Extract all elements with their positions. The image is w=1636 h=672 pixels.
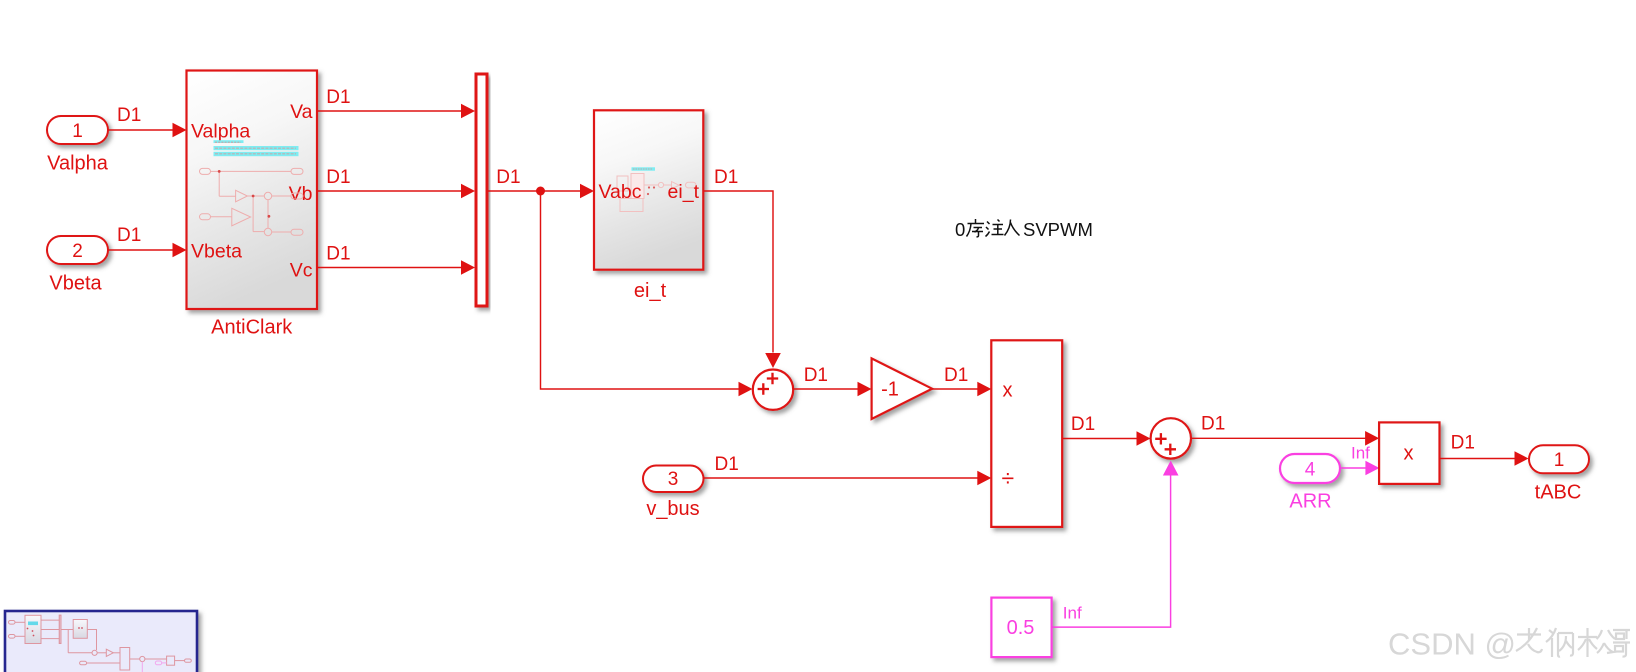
svg-text:ei_t: ei_t	[668, 181, 700, 203]
svg-text:Valpha: Valpha	[47, 153, 109, 175]
svg-text:ARR: ARR	[1289, 491, 1331, 513]
mini ei_t	[73, 620, 87, 639]
inport 4 ARR	[1280, 454, 1340, 513]
svg-text:3: 3	[668, 469, 679, 490]
wire v_bus to divide	[704, 454, 992, 485]
constant 0.5	[991, 598, 1051, 658]
svg-text:4: 4	[1305, 460, 1316, 481]
ei_t preview	[632, 167, 656, 170]
inport 2 Vbeta	[47, 236, 108, 295]
wire divide to sum2	[1062, 414, 1150, 446]
wire 0.5 to sum2 (magenta)	[1052, 461, 1179, 628]
wire Vb to mux	[317, 167, 475, 198]
mini mux	[59, 615, 61, 643]
svg-text:1: 1	[72, 121, 83, 142]
svg-text:D1: D1	[117, 105, 141, 126]
outport 1 tABC	[1529, 445, 1589, 503]
svg-text:Vbeta: Vbeta	[49, 273, 102, 295]
svg-text:Inf: Inf	[1063, 604, 1082, 623]
svg-text:Vc: Vc	[290, 260, 313, 282]
svg-text:D1: D1	[496, 167, 520, 188]
svg-text:D1: D1	[117, 225, 141, 246]
inport 1 Valpha	[47, 116, 109, 175]
mux	[476, 74, 487, 306]
svg-text:Vabc: Vabc	[599, 181, 642, 203]
svg-text:Valpha: Valpha	[191, 121, 250, 143]
wire sum2 to product	[1191, 414, 1379, 446]
ei_t labels	[599, 181, 700, 302]
svg-text:v_bus: v_bus	[646, 498, 699, 520]
svg-text:ei_t: ei_t	[634, 280, 667, 302]
wire inport1 to AntiClark	[108, 105, 187, 137]
svg-text:D1: D1	[944, 365, 968, 386]
svg-text:AntiClark: AntiClark	[211, 317, 293, 339]
minimap contents	[9, 615, 192, 670]
svg-text:D1: D1	[326, 244, 350, 265]
mini v_bus	[80, 661, 87, 665]
mini sum1	[92, 650, 97, 655]
svg-text:D1: D1	[715, 454, 739, 475]
svg-text:0: 0	[955, 219, 965, 240]
mini AntiClark	[25, 615, 41, 643]
svg-text:x: x	[1003, 380, 1013, 402]
wire Va to mux	[317, 87, 475, 118]
wire product to outport	[1440, 433, 1529, 466]
subsystem AntiClark	[187, 71, 318, 339]
minimap navigation panel	[5, 611, 197, 672]
svg-text:D1: D1	[714, 167, 738, 188]
svg-text:D1: D1	[1071, 414, 1095, 435]
preview junction dots	[218, 170, 270, 218]
sum block 2	[1151, 418, 1191, 458]
mini inport1	[9, 621, 16, 625]
svg-text:CSDN @: CSDN @	[1388, 627, 1516, 662]
svg-text:-1: -1	[881, 379, 899, 401]
wire ei_t to sum1	[703, 167, 781, 368]
AntiClark preview code lines	[214, 140, 299, 156]
mini outport	[185, 659, 192, 662]
svg-text:D1: D1	[1201, 414, 1225, 435]
svg-text:D1: D1	[326, 167, 350, 188]
svg-text:0.5: 0.5	[1007, 617, 1035, 639]
CJK ru	[1005, 220, 1020, 236]
watermark CSDN	[1388, 627, 1630, 662]
mini divide	[120, 648, 130, 671]
wire ARR to product (magenta)	[1340, 444, 1379, 476]
svg-text:x: x	[1404, 443, 1414, 465]
minimap magenta bits	[142, 661, 166, 672]
minimap accents	[28, 622, 38, 626]
mini gain	[106, 649, 113, 656]
title 0序注入SVPWM	[955, 219, 1093, 240]
CJK song	[1578, 628, 1615, 657]
svg-text:SVPWM: SVPWM	[1023, 219, 1093, 240]
mini out wires	[41, 619, 60, 621]
svg-text:1: 1	[1554, 450, 1565, 471]
mini sum2	[140, 656, 145, 661]
CJK xu	[967, 219, 985, 237]
CJK na	[1546, 628, 1573, 657]
AntiClark preview circuit	[200, 168, 304, 235]
mini product	[167, 656, 175, 665]
divide block	[991, 340, 1062, 527]
svg-text:D1: D1	[804, 365, 828, 386]
svg-text:tABC: tABC	[1535, 482, 1582, 504]
svg-text:2: 2	[72, 241, 83, 262]
wire sum1 to gain	[793, 365, 871, 396]
wire junction down to sum1	[541, 191, 753, 396]
subsystem ei_t	[594, 110, 703, 269]
wire Vc to mux	[317, 244, 475, 275]
CJK zhu	[986, 220, 1004, 237]
mini inport2	[9, 635, 16, 639]
junction node	[536, 187, 545, 196]
wire gain to divide	[932, 365, 991, 396]
svg-text:Vbeta: Vbeta	[191, 241, 242, 263]
wire mux to ei_t	[488, 167, 595, 198]
svg-text:D1: D1	[326, 87, 350, 108]
svg-text:÷: ÷	[1002, 465, 1015, 491]
inport 3 v_bus	[643, 466, 704, 521]
sum block 1	[753, 370, 793, 410]
CJK lao	[1516, 628, 1542, 652]
product block	[1379, 422, 1439, 484]
svg-text:Va: Va	[290, 101, 313, 123]
wire inport2 to AntiClark	[108, 225, 187, 257]
svg-text:D1: D1	[1451, 433, 1475, 454]
svg-text:Inf: Inf	[1351, 444, 1370, 463]
mini mux out	[61, 629, 73, 631]
gain -1	[872, 358, 933, 419]
CJK ge	[1613, 630, 1630, 657]
